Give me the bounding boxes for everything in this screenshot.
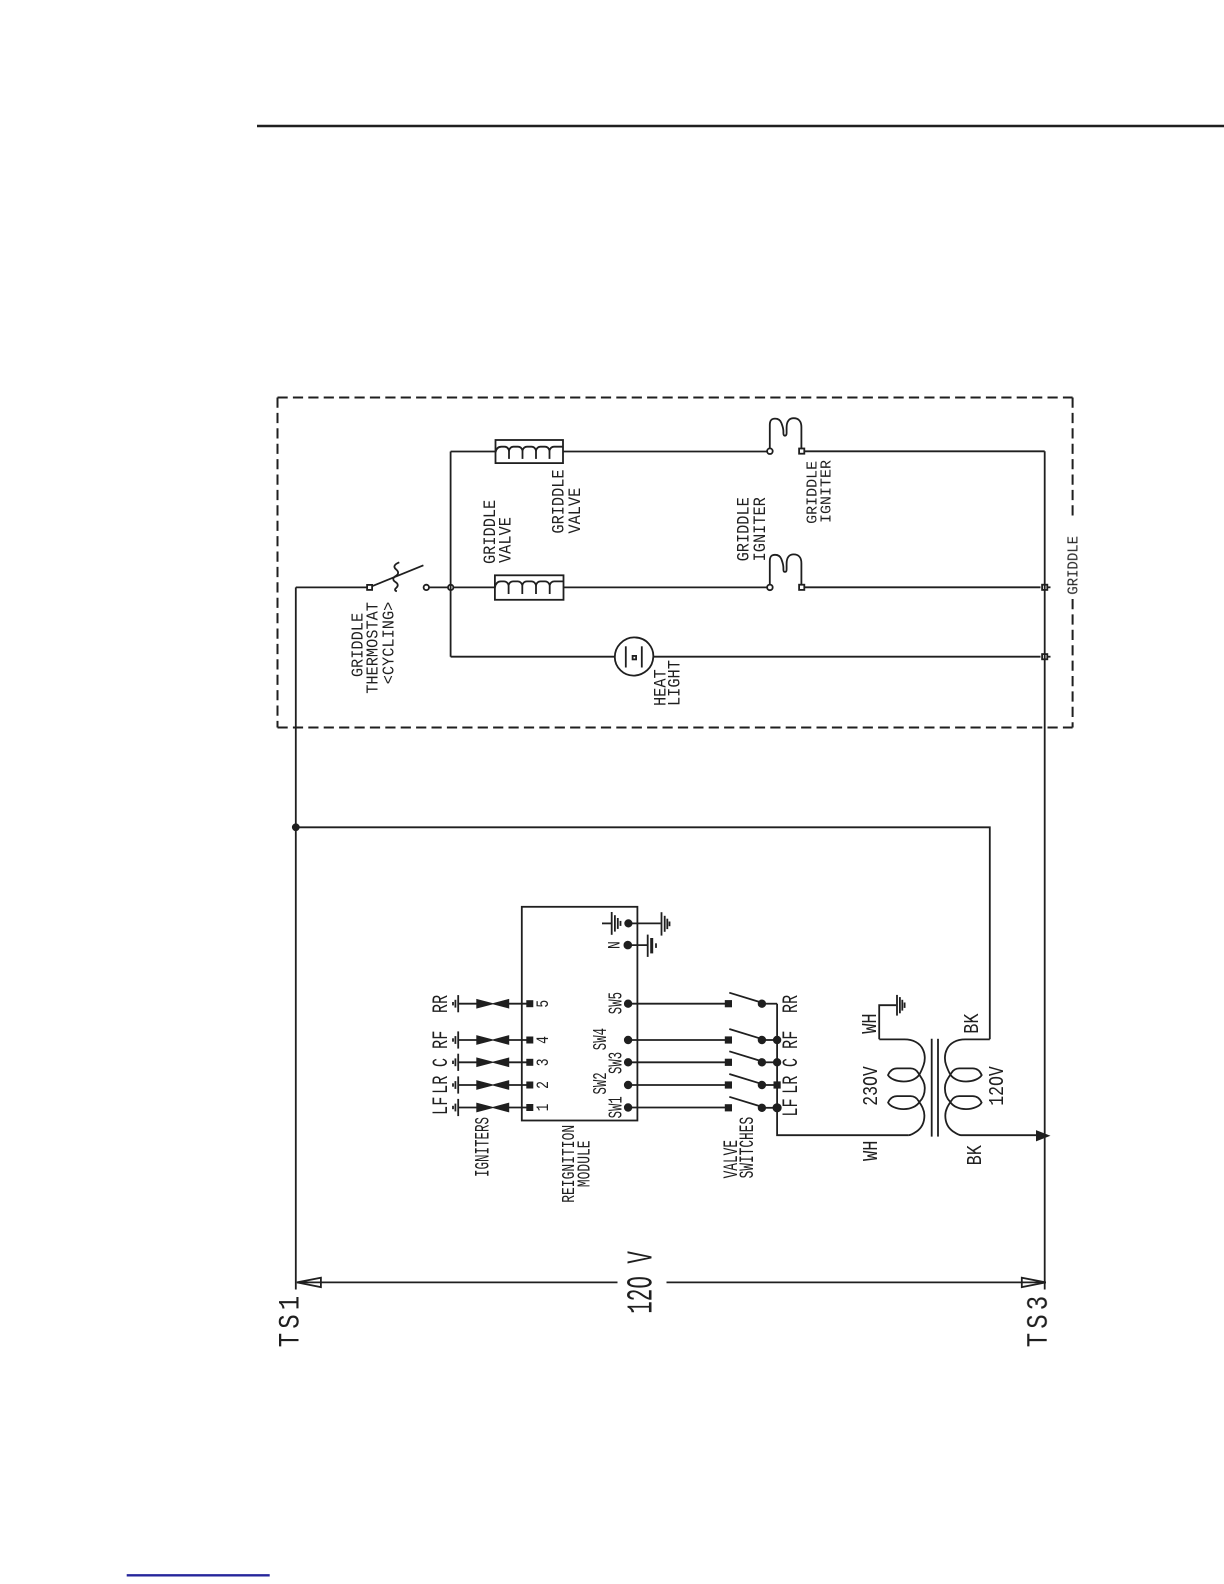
svg-text:TS3: TS3 — [1024, 1292, 1057, 1347]
svg-text:SWITCHES: SWITCHES — [737, 1117, 760, 1179]
wire: node B feed to transformer secondary — [296, 827, 990, 1039]
griddle igniter 1 (hot surface igniter) — [767, 418, 804, 454]
valve switch SW3 — [726, 1051, 777, 1065]
chassis ground RF igniter — [453, 1031, 458, 1048]
node A junction circle — [448, 585, 453, 590]
wire row2: left bus to griddle thermostat — [296, 586, 367, 588]
svg-text:SW2: SW2 — [589, 1072, 612, 1094]
transformer primary ground lead WH — [879, 995, 904, 1039]
bus junction LR — [774, 1082, 779, 1087]
svg-text:C: C — [778, 1058, 804, 1067]
dimension arrowhead TS3 — [1022, 1278, 1046, 1287]
svg-text:RF: RF — [778, 1031, 804, 1049]
header rule — [257, 125, 1224, 128]
igniter lead RF spark gap to module pin 4 — [458, 1036, 532, 1043]
dimension line 120 V — [297, 1281, 1046, 1283]
igniter lead LR spark gap to module pin 2 — [458, 1081, 532, 1088]
module pin N — [624, 942, 647, 949]
svg-text:LF: LF — [778, 1098, 804, 1116]
footer blue rule — [127, 1574, 270, 1576]
svg-text:IGNITERS: IGNITERS — [473, 1117, 496, 1177]
svg-text:VALVE: VALVE — [495, 517, 515, 563]
svg-text:IGNITER: IGNITER — [750, 497, 770, 561]
wire: igniter 1 to right bus — [805, 450, 1045, 452]
transformer T1 core — [932, 1039, 938, 1137]
svg-text:BK: BK — [960, 1013, 984, 1034]
junction connector at igniter2 row — [1042, 585, 1050, 590]
svg-text:BK: BK — [964, 1145, 988, 1166]
svg-text:LR: LR — [428, 1076, 454, 1094]
wire module pin SW5 to valve switch — [625, 1000, 726, 1007]
svg-text:SW1: SW1 — [605, 1096, 628, 1118]
vertical wire A: valve1 feed down to heat light row — [450, 452, 452, 657]
wire row3: node A to heat light — [451, 656, 615, 658]
svg-text:LIGHT: LIGHT — [665, 660, 685, 706]
svg-text:4: 4 — [533, 1036, 553, 1044]
valve switch SW4 — [726, 1029, 777, 1043]
left bus vertical wire TS1 side — [295, 587, 297, 1289]
svg-text:WH: WH — [858, 1013, 882, 1033]
junction connector at heat light row — [1042, 654, 1050, 659]
svg-text:12O V: 12O V — [622, 1251, 662, 1314]
svg-text:SW4: SW4 — [589, 1028, 612, 1050]
valve switch SW1 — [726, 1097, 777, 1111]
valve switch common bus wire — [777, 1004, 909, 1135]
griddle thermostat (cycling) switch — [367, 562, 429, 591]
wire: node A to griddle valve 2 — [453, 586, 495, 588]
svg-text:IGNITER: IGNITER — [818, 460, 835, 523]
chassis ground at pin N — [648, 935, 656, 957]
node B junction dot on left bus — [293, 824, 299, 830]
transformer primary winding 230V — [879, 1039, 925, 1135]
svg-text:2: 2 — [533, 1081, 553, 1089]
griddle valve 2 (solenoid coil) — [495, 575, 564, 600]
valve switch SW5 — [726, 993, 777, 1007]
chassis ground LF igniter — [453, 1099, 458, 1116]
svg-text:WH: WH — [859, 1141, 883, 1161]
dimension arrowhead TS1 — [297, 1278, 321, 1287]
secondary BK lead junction arrow — [1037, 1132, 1048, 1141]
wire: thermostat to node A — [429, 586, 448, 588]
svg-text:5: 5 — [533, 1000, 553, 1008]
svg-text:LF: LF — [428, 1097, 454, 1115]
svg-text:3: 3 — [533, 1058, 553, 1066]
svg-text:RR: RR — [428, 995, 454, 1013]
bus junction RF — [774, 1037, 781, 1044]
bus junction C — [774, 1059, 781, 1066]
transformer secondary winding 120V — [945, 1039, 1041, 1135]
wire module pin SW3 to valve switch — [625, 1059, 726, 1066]
svg-text:1: 1 — [533, 1104, 553, 1112]
valve switch SW2 — [726, 1074, 777, 1088]
wire: valve 1 to igniter 1 — [563, 451, 767, 453]
chassis ground LR igniter — [453, 1076, 458, 1093]
igniter lead C spark gap to module pin 3 — [458, 1059, 532, 1066]
svg-text:23OV: 23OV — [859, 1066, 884, 1106]
chassis ground C igniter — [453, 1054, 458, 1071]
griddle igniter 2 (hot surface igniter) — [767, 554, 804, 590]
svg-text:C: C — [428, 1058, 454, 1067]
wire row1: thermostat bus to griddle valve 1 — [451, 451, 496, 453]
heat light indicator lamp — [615, 637, 654, 675]
svg-text:VALVE: VALVE — [565, 488, 585, 534]
wire: heat light to right bus junction — [654, 656, 1041, 658]
wire module pin SW4 to valve switch — [625, 1037, 726, 1044]
svg-text:TS1: TS1 — [276, 1292, 309, 1347]
griddle valve 1 (solenoid coil) — [496, 440, 564, 463]
svg-text:RR: RR — [778, 995, 804, 1013]
reignition module box — [522, 907, 638, 1121]
svg-text:N: N — [605, 941, 625, 949]
svg-text:GRIDDLE: GRIDDLE — [1066, 536, 1083, 595]
svg-text:<CYCLING>: <CYCLING> — [380, 602, 399, 685]
svg-text:12OV: 12OV — [985, 1066, 1010, 1106]
svg-text:LR: LR — [778, 1076, 804, 1094]
chassis ground right of pin 1 — [662, 912, 670, 935]
wire module pin SW2 to valve switch — [625, 1082, 726, 1089]
svg-text:RF: RF — [428, 1031, 454, 1049]
wire module pin SW1 to valve switch — [625, 1104, 726, 1111]
GRIDDLE section dashed enclosure — [278, 398, 1073, 728]
svg-text:MODULE: MODULE — [574, 1140, 595, 1187]
chassis ground RR igniter — [453, 995, 458, 1012]
chassis ground left of pin 1 — [612, 912, 621, 935]
wire: igniter 2 to right bus junction — [805, 586, 1041, 588]
right bus vertical wire TS3 side — [1044, 451, 1046, 1289]
igniter lead RR spark gap to module pin 5 — [458, 1000, 532, 1007]
module ground pin 1 — [602, 920, 661, 926]
svg-text:SW3: SW3 — [605, 1052, 628, 1074]
bus junction LF — [773, 1104, 780, 1111]
svg-text:SW5: SW5 — [605, 992, 628, 1014]
wire: valve 2 to igniter 2 — [564, 586, 768, 588]
igniter lead LF spark gap to module pin 1 — [458, 1104, 532, 1111]
